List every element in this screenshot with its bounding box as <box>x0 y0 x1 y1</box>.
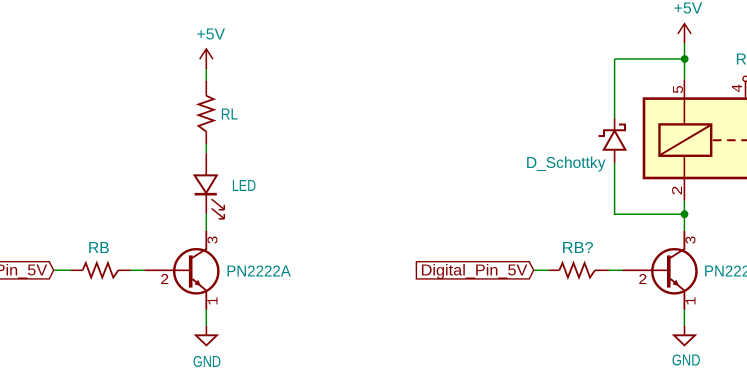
transistor Q1 PN2222A <box>144 231 218 310</box>
power +5V symbol (left) <box>200 49 213 69</box>
svg-text:2: 2 <box>160 272 170 289</box>
resistor RL <box>199 81 214 144</box>
resistor RB? <box>549 263 608 278</box>
relay coil box <box>660 124 712 155</box>
wire RB to Q1 base <box>130 269 144 271</box>
svg-text:GND: GND <box>672 352 701 369</box>
svg-text:1: 1 <box>684 296 701 305</box>
relay pin 2 <box>683 156 685 201</box>
Q2 emitter arrow <box>673 280 680 286</box>
ground symbol (left) <box>196 326 217 346</box>
diode D_Schottky <box>599 119 626 163</box>
power +5V symbol (right) <box>678 24 691 43</box>
relay K1 body <box>644 99 747 178</box>
svg-text:+5V: +5V <box>674 1 703 18</box>
wire RB? to Q2 base <box>609 269 623 271</box>
relay pin 4 <box>745 82 747 98</box>
svg-text:D_Schottky: D_Schottky <box>526 155 606 172</box>
junction (top) <box>681 55 689 63</box>
svg-text:3: 3 <box>206 235 223 244</box>
svg-text:3: 3 <box>684 235 701 244</box>
Q1 emitter arrow <box>194 280 201 286</box>
wire label to RB <box>54 269 71 271</box>
relay coil diagonal <box>661 125 711 154</box>
svg-text:2: 2 <box>638 272 648 289</box>
svg-text:RB?: RB? <box>562 240 594 257</box>
svg-text:RB: RB <box>88 240 110 257</box>
global label Digital_Pin_5V (clipped at left edge) <box>0 262 54 280</box>
wire down to diode anode <box>614 59 616 119</box>
svg-text:4: 4 <box>730 84 747 93</box>
wire Q2 emitter to GND <box>683 310 685 327</box>
relay pin 5 <box>683 80 685 125</box>
wire label to RB? <box>534 269 549 271</box>
wire RL to LED <box>205 144 207 153</box>
wire +5V to RL <box>205 69 207 81</box>
relay dashed link to contacts <box>713 139 747 141</box>
svg-text:LED: LED <box>232 178 256 195</box>
relay pin 4 dangling end <box>743 76 747 81</box>
svg-text:GND: GND <box>193 354 221 371</box>
wire relay pin 2 to junction <box>683 201 685 215</box>
svg-text:5: 5 <box>671 85 688 94</box>
junction (bottom) <box>681 210 689 218</box>
svg-text:R?: R? <box>736 51 747 68</box>
svg-text:RL: RL <box>221 107 239 124</box>
wire diode cathode down and right to junction (bottom) <box>615 163 685 215</box>
wire junction down to relay pin 5 <box>684 59 686 80</box>
svg-text:PN2222A: PN2222A <box>704 263 747 280</box>
global label Digital_Pin_5V (right) <box>416 262 533 280</box>
svg-text:Digital_Pin_5V: Digital_Pin_5V <box>0 263 48 280</box>
wire Q1 emitter to GND <box>205 310 207 326</box>
svg-text:+5V: +5V <box>197 27 226 44</box>
transistor Q2 PN2222A <box>623 231 697 310</box>
wire LED to Q1 collector <box>205 214 207 231</box>
svg-text:2: 2 <box>670 185 687 196</box>
wire junction to diode branch (top horizontal) <box>615 58 685 60</box>
wire junction to Q2 collector <box>683 214 685 231</box>
wire +5V down to junction <box>684 43 686 59</box>
LED D1 <box>195 153 225 219</box>
svg-text:Digital_Pin_5V: Digital_Pin_5V <box>421 263 528 280</box>
svg-text:PN2222A: PN2222A <box>226 263 291 280</box>
svg-text:1: 1 <box>206 296 223 305</box>
resistor RB <box>71 263 130 278</box>
ground symbol (right) <box>674 326 695 345</box>
